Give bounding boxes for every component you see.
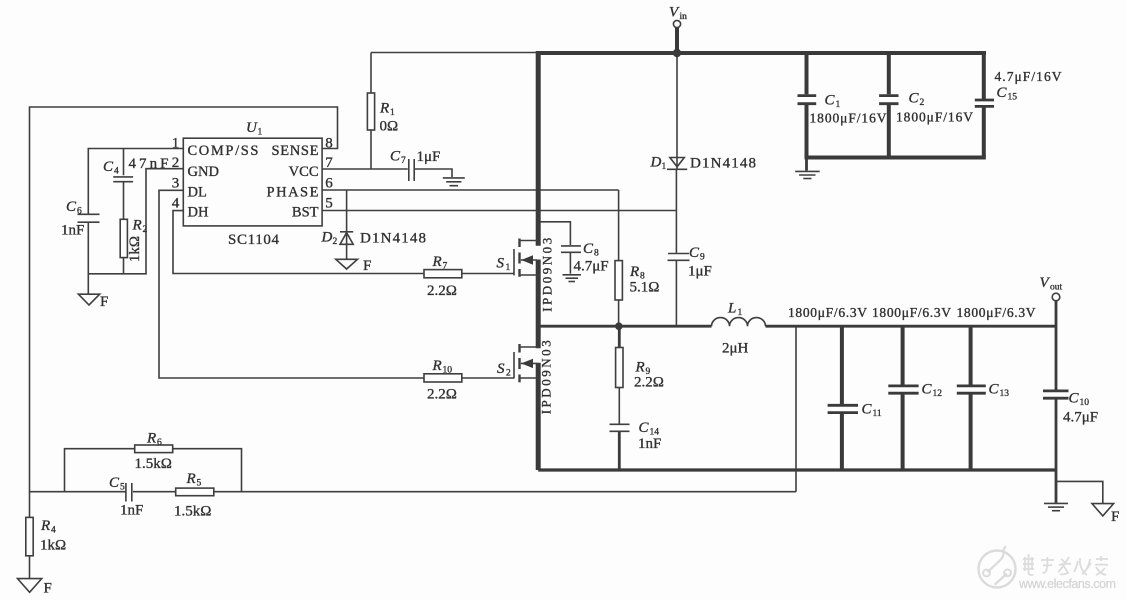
label C11: [862, 402, 882, 420]
capacitor C7 plates: [409, 159, 414, 181]
wire feedback line to left: [214, 491, 796, 493]
svg-text:V: V: [669, 5, 680, 21]
svg-text:C: C: [390, 149, 401, 165]
svg-text:9: 9: [700, 253, 705, 263]
wire COMP/SS pin1 to compensation network: [88, 149, 183, 214]
svg-text:R: R: [40, 518, 50, 534]
svg-text:GND: GND: [188, 164, 219, 180]
label C10: [1069, 391, 1090, 409]
wire output to F ground branch: [1056, 481, 1103, 503]
label C2: [909, 91, 925, 109]
svg-text:1: 1: [506, 263, 511, 273]
resistor R5 body: [176, 488, 214, 496]
wire C8 tap from drain bus: [541, 222, 571, 245]
ground F (R4): [18, 579, 42, 593]
watermark CJK text strokes: [1023, 554, 1108, 575]
wire output ground bus (thick): [538, 468, 1056, 471]
wire SENSE pin8 loop: pin8 up, across top, down left side to feedback node: [30, 107, 338, 492]
wire PHASE pin6 across: [322, 189, 618, 191]
svg-text:47nF: 47nF: [129, 156, 169, 172]
svg-text:R: R: [146, 431, 156, 447]
svg-text:8: 8: [594, 249, 599, 259]
wire Vout riser down through output line to C10: [1055, 301, 1058, 390]
svg-text:D: D: [650, 155, 662, 171]
wire input bus (thick): [537, 51, 987, 55]
svg-text:C: C: [689, 245, 700, 261]
label S1: [497, 256, 511, 274]
svg-text:1: 1: [662, 162, 667, 172]
svg-text:2.2Ω: 2.2Ω: [634, 375, 664, 391]
svg-text:C: C: [997, 85, 1008, 101]
label C5: [109, 475, 125, 493]
wire R1 top stub: [370, 53, 372, 94]
svg-text:4: 4: [51, 526, 56, 536]
wire R9 top stub: [618, 328, 621, 348]
svg-text:C: C: [825, 93, 836, 109]
ground earth (output): [1044, 503, 1068, 510]
svg-text:R: R: [132, 218, 142, 234]
wire C10 bottom to ground bus and earth: [1055, 399, 1058, 503]
svg-text:6: 6: [77, 207, 82, 217]
svg-text:C: C: [109, 475, 120, 491]
label C14: [639, 420, 660, 438]
svg-text:1.5kΩ: 1.5kΩ: [174, 504, 211, 520]
svg-text:1: 1: [390, 108, 395, 118]
transistor S1 source lead: [521, 274, 539, 276]
wire Vin stub (thick): [675, 28, 679, 53]
wire drain bus middle segment (thick vertical): [536, 260, 541, 349]
svg-text:DL: DL: [188, 185, 207, 201]
svg-text:1nF: 1nF: [120, 503, 143, 519]
capacitor C15 branch lower (thick): [982, 108, 986, 158]
transistor S1 gate plate: [513, 249, 515, 275]
wire PHASE riser down to R8: [618, 190, 620, 261]
inductor L1 (3 humps): [712, 318, 766, 327]
wire feedback riser from output line: [795, 327, 797, 492]
svg-text:R: R: [629, 264, 639, 280]
ground F (comp network): [78, 294, 99, 305]
label R1: [379, 101, 395, 119]
svg-text:L: L: [727, 301, 736, 317]
svg-text:SC1104: SC1104: [228, 232, 280, 248]
diode D1 (triangle pointing down, cathode bar below): [667, 158, 687, 170]
capacitor C14 plates: [610, 424, 630, 431]
transistor S2 body arrow lead: [521, 359, 537, 368]
svg-text:4.7μF: 4.7μF: [1063, 410, 1098, 426]
node Vin label: [669, 5, 687, 23]
svg-text:U: U: [246, 120, 258, 136]
svg-text:2μH: 2μH: [722, 341, 749, 357]
label L1: [727, 301, 743, 319]
svg-text:2: 2: [920, 98, 925, 108]
svg-text:www.elecfans.com: www.elecfans.com: [1018, 577, 1116, 591]
capacitor C11 branch upper (thick): [840, 327, 844, 404]
ground F (output): [1092, 504, 1114, 516]
ground earth (input caps): [795, 171, 820, 178]
svg-text:10: 10: [443, 366, 453, 376]
svg-text:1800μF/6.3V: 1800μF/6.3V: [788, 305, 867, 320]
wire DH pin4 down and across to R7: [173, 211, 424, 274]
wire D1 cathode down to BST node and C9: [675, 169, 677, 253]
svg-text:PHASE: PHASE: [267, 185, 319, 201]
wire R10 to S2 gate: [462, 377, 514, 379]
label C7: [390, 149, 406, 167]
wire D2 riser from PHASE: [346, 190, 348, 244]
label C6: [66, 199, 82, 217]
wire gnd stub below C1: [805, 159, 808, 171]
label C15: [997, 85, 1018, 103]
svg-text:2: 2: [143, 225, 148, 235]
svg-text:10: 10: [1080, 398, 1090, 408]
capacitor C1 branch upper (thick): [805, 53, 809, 94]
svg-text:C: C: [1069, 391, 1080, 407]
svg-text:1: 1: [836, 100, 841, 110]
node Vout terminal circle: [1052, 293, 1060, 301]
capacitor C12 branch upper (thick): [901, 327, 905, 385]
svg-text:15: 15: [1008, 93, 1018, 103]
wire R9 to C14: [618, 388, 620, 424]
resistor R1 body: [367, 93, 374, 130]
wire DL pin3 down and across to R10: [159, 190, 424, 378]
svg-text:1nF: 1nF: [638, 436, 661, 452]
svg-text:C: C: [103, 159, 114, 175]
label R8: [629, 264, 645, 282]
svg-text:0Ω: 0Ω: [380, 119, 399, 135]
wire output line after L1 (medium): [766, 325, 1056, 328]
svg-text:5: 5: [325, 196, 333, 212]
ground earth (C7): [443, 178, 465, 186]
svg-text:2: 2: [333, 237, 338, 247]
svg-text:R: R: [432, 254, 442, 270]
svg-text:BST: BST: [292, 205, 319, 221]
wire R4 bottom stub: [29, 556, 31, 578]
svg-text:in: in: [680, 12, 688, 22]
node Vout label: [1040, 275, 1063, 293]
svg-text:11: 11: [873, 409, 882, 419]
junction dot Vin: [673, 49, 681, 57]
svg-text:2.2Ω: 2.2Ω: [427, 387, 457, 403]
label R6: [146, 431, 162, 449]
resistor R10 body: [424, 374, 462, 382]
label C9: [689, 245, 705, 263]
capacitor C9 plates: [668, 254, 690, 261]
wire VCC pin7 to R1/C7: [322, 168, 408, 170]
svg-text:1: 1: [738, 308, 743, 318]
capacitor C1 plates: [798, 96, 817, 104]
capacitor C2 plates: [879, 96, 898, 104]
svg-text:F: F: [100, 294, 108, 310]
label C4: [103, 159, 119, 177]
label C13: [989, 382, 1010, 400]
capacitor C2 branch lower (thick): [887, 105, 891, 158]
svg-text:5: 5: [120, 483, 125, 493]
svg-text:COMP/SS: COMP/SS: [188, 143, 259, 159]
label C1: [825, 93, 841, 111]
svg-text:IPD09N03: IPD09N03: [539, 340, 554, 414]
svg-text:S: S: [497, 256, 505, 272]
resistor R9 body: [616, 348, 623, 388]
label D1: [650, 155, 667, 173]
wire BST pin5 across: [322, 210, 676, 212]
svg-text:1800μF/16V: 1800μF/16V: [896, 110, 973, 125]
label U1: [246, 120, 263, 138]
capacitor C1 branch lower (thick): [805, 105, 809, 158]
wire C8 bottom stub: [569, 253, 571, 274]
wire C14 bottom to ground bus: [618, 432, 621, 470]
wire feedback line segment left of R5: [133, 491, 176, 493]
label R7: [432, 254, 448, 272]
wire R1 top to input bus: [371, 52, 537, 54]
capacitor C11 plates: [828, 405, 858, 412]
svg-text:6: 6: [157, 438, 162, 448]
svg-text:1kΩ: 1kΩ: [40, 538, 66, 554]
label R4: [40, 518, 56, 536]
capacitor C13 plates: [957, 386, 986, 393]
transistor S2 gate plate: [513, 352, 515, 378]
ground F (D2): [336, 259, 358, 269]
resistor R7 body: [424, 270, 462, 278]
transistor S2 drain lead: [521, 346, 539, 348]
svg-text:3: 3: [172, 176, 180, 192]
op-amp/controller U1 SC1104 box: [183, 138, 322, 226]
svg-text:4: 4: [114, 167, 119, 177]
resistor R8 body: [615, 261, 622, 300]
svg-text:S: S: [497, 361, 505, 377]
capacitor C15 plates: [975, 100, 994, 106]
wire C7 to ground: [415, 169, 452, 177]
svg-text:C: C: [639, 420, 650, 436]
wire R7 to S1 gate: [462, 273, 514, 275]
transistor S1 body arrow lead: [521, 255, 537, 264]
svg-text:4.7μF/16V: 4.7μF/16V: [995, 69, 1062, 84]
svg-text:5: 5: [197, 479, 202, 489]
capacitor C4 plates: [113, 177, 133, 182]
label R9: [635, 360, 651, 378]
svg-text:C: C: [583, 241, 594, 257]
wire C6 bottom to gnd rail: [88, 169, 183, 274]
label S2: [497, 361, 511, 379]
svg-text:2: 2: [506, 369, 511, 379]
capacitor C10 plates: [1043, 391, 1069, 398]
svg-text:6: 6: [325, 176, 333, 192]
svg-text:2.2Ω: 2.2Ω: [427, 283, 457, 299]
svg-text:1: 1: [258, 128, 263, 138]
label R5: [186, 471, 202, 489]
capacitor C15 branch upper (thick): [982, 51, 986, 99]
wire R2 bottom stub: [123, 258, 125, 274]
svg-text:1kΩ: 1kΩ: [127, 236, 143, 262]
wire R1 bottom stub: [370, 130, 372, 169]
svg-text:SENSE: SENSE: [272, 143, 319, 159]
wire feedback line segment left of C5: [30, 491, 126, 493]
svg-text:4: 4: [172, 196, 180, 212]
wire D2 anode to ground: [346, 244, 348, 258]
wire drain bus upper segment (thick vertical): [536, 51, 541, 246]
svg-text:1800μF/6.3V: 1800μF/6.3V: [957, 305, 1036, 320]
junction dot switch node: [615, 322, 623, 330]
diode D2 (cathode bar up, triangle pointing up): [340, 232, 353, 245]
svg-text:R: R: [432, 358, 442, 374]
watermark logo circle: [979, 546, 1016, 587]
svg-text:1μF: 1μF: [688, 264, 712, 280]
svg-text:out: out: [1050, 283, 1063, 293]
svg-text:DH: DH: [188, 205, 209, 221]
wire gnd stub below C6 junction: [87, 274, 89, 294]
svg-text:R: R: [379, 101, 389, 117]
svg-text:12: 12: [933, 389, 943, 399]
svg-text:4.7μF: 4.7μF: [574, 259, 609, 275]
svg-text:1800μF/16V: 1800μF/16V: [810, 111, 887, 126]
wire D1 riser from Vin node: [676, 57, 678, 169]
wire C4 riser from pin1 wire: [123, 149, 125, 176]
wire C9 bottom to switch node: [675, 261, 677, 325]
capacitor C11 branch lower (thick): [840, 414, 844, 470]
svg-text:VCC: VCC: [289, 164, 319, 180]
svg-text:5.1Ω: 5.1Ω: [630, 280, 660, 296]
svg-text:C: C: [989, 382, 1000, 398]
capacitor C2 branch upper (thick): [887, 53, 891, 94]
resistor R2 body: [120, 219, 127, 257]
wire C4 to R2: [123, 183, 125, 220]
transistor S1 channel bars: [518, 239, 520, 277]
svg-text:R: R: [635, 360, 645, 376]
wire R8 bottom to switch node: [618, 300, 620, 325]
svg-text:7: 7: [443, 262, 448, 272]
label R10: [432, 358, 453, 376]
svg-text:1.5kΩ: 1.5kΩ: [135, 456, 172, 472]
capacitor C13 branch lower (thick): [969, 394, 973, 470]
resistor R4 body: [26, 517, 33, 555]
capacitor C13 branch upper (thick): [969, 327, 973, 385]
svg-text:R: R: [186, 471, 196, 487]
svg-text:1800μF/6.3V: 1800μF/6.3V: [872, 305, 951, 320]
label D2: [321, 230, 338, 248]
label R2: [132, 218, 148, 236]
svg-text:1nF: 1nF: [61, 223, 84, 239]
svg-text:13: 13: [1000, 389, 1010, 399]
resistor R6 body: [135, 445, 173, 453]
ground earth (C8): [563, 275, 581, 282]
capacitor C6 plates: [78, 214, 100, 222]
svg-text:D: D: [321, 230, 333, 246]
wire R4 top stub: [29, 492, 31, 518]
svg-text:F: F: [1111, 509, 1119, 525]
wire switch node line (medium): [540, 325, 712, 328]
svg-text:V: V: [1040, 275, 1051, 291]
svg-text:IPD09N03: IPD09N03: [540, 238, 555, 312]
label C8: [583, 241, 599, 259]
capacitor C5 plates: [126, 483, 132, 502]
label C12: [922, 382, 943, 400]
wire drain bus lower segment (thick vertical): [536, 363, 541, 470]
capacitor C12 plates: [888, 386, 918, 393]
svg-text:F: F: [44, 581, 52, 597]
transistor S2 source lead: [521, 377, 539, 379]
svg-text:F: F: [363, 258, 371, 274]
svg-text:C: C: [909, 91, 920, 107]
svg-text:1μF: 1μF: [417, 149, 441, 165]
transistor S2 channel bars: [518, 344, 520, 382]
svg-text:C: C: [862, 402, 873, 418]
svg-text:D1N4148: D1N4148: [690, 156, 756, 172]
svg-text:C: C: [922, 382, 933, 398]
svg-text:D1N4148: D1N4148: [360, 231, 426, 247]
svg-text:C: C: [66, 199, 77, 215]
capacitor C12 branch lower (thick): [901, 394, 905, 470]
svg-text:7: 7: [401, 156, 406, 166]
wire R6 bypass loop: [65, 449, 242, 492]
transistor S1 drain lead: [521, 240, 539, 242]
wire input caps bottom connector (thick): [805, 156, 986, 160]
node Vin terminal circle: [673, 20, 680, 27]
capacitor C8 plates: [561, 246, 581, 252]
